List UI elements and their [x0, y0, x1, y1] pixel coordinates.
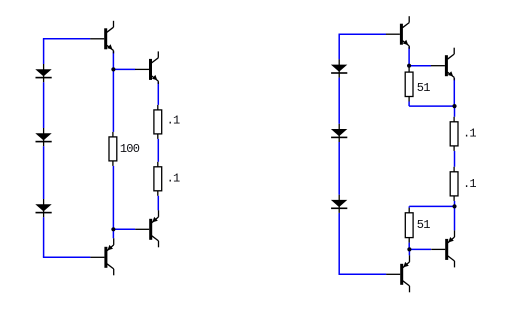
svg-text:100: 100	[120, 142, 140, 156]
svg-text:.1: .1	[463, 127, 476, 141]
svg-text:.1: .1	[167, 114, 180, 128]
svg-text:.1: .1	[167, 172, 180, 186]
svg-text:51: 51	[417, 218, 430, 232]
svg-text:.1: .1	[463, 177, 476, 191]
svg-text:51: 51	[417, 81, 430, 95]
